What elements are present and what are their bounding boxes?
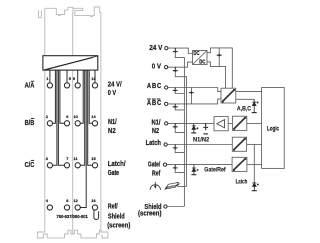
wire optocoupler N1/N2 to logic: [247, 122, 262, 124]
terminal 14: [92, 121, 97, 126]
svg-text:24 V: 24 V: [149, 45, 163, 52]
svg-text:5: 5: [69, 76, 72, 81]
terminal 0V: [164, 66, 167, 69]
wire ABCbar to optocoupler: [168, 99, 221, 104]
optocoupler U5 Latch: [232, 137, 246, 151]
svg-text:DC: DC: [199, 59, 206, 64]
svg-text:9: 9: [73, 76, 76, 81]
asterisk at Gate/Ref diode: [197, 169, 199, 171]
wire bundle left line to terminal 2: [53, 70, 56, 123]
wire bundle right line to terminal 10: [80, 70, 83, 123]
ground under D4: [252, 190, 257, 192]
capacitor lead ABC to rail: [175, 92, 184, 94]
svg-text:11: 11: [74, 156, 79, 161]
capacitor C5 differential ABC: [189, 91, 194, 94]
terminal 2: [47, 121, 52, 126]
svg-text:Ref: Ref: [152, 170, 161, 178]
housing middle divider: [72, 12, 74, 234]
svg-text:750-637/000-001: 750-637/000-001: [56, 214, 88, 219]
diode D3 suppressor A,B,C: [252, 99, 256, 112]
svg-text:Gate: Gate: [108, 169, 120, 177]
svg-text:ABC: ABC: [147, 99, 162, 107]
svg-text:12: 12: [74, 198, 79, 203]
wire stub terminal 5: [66, 70, 68, 83]
svg-text:1: 1: [46, 76, 49, 81]
terminal 10: [75, 121, 80, 126]
terminal ABC: [165, 86, 168, 89]
ground under D1: [191, 132, 196, 134]
terminal 24V: [165, 46, 168, 49]
wire bundle right line to terminal 12: [80, 70, 86, 207]
wire stub terminal 9: [77, 70, 79, 83]
terminal 12: [75, 205, 80, 210]
wire shield clamp to rail: [179, 185, 187, 187]
svg-text:4: 4: [46, 198, 49, 203]
svg-text:3: 3: [46, 156, 49, 161]
comparator U2 N1/N2: [214, 117, 228, 131]
svg-text:Gate/: Gate/: [148, 160, 161, 168]
wire bundle right line to terminal 15: [88, 70, 93, 165]
logic block U7: [262, 88, 285, 169]
capacitor lead Latch to rail: [175, 150, 184, 153]
rail 1 (0V bus): [175, 53, 184, 207]
capacitor lead ABCbar to rail: [175, 108, 184, 110]
clamp blade diagonal: [43, 56, 98, 70]
terminal N1/N2: [165, 122, 168, 125]
svg-text:N1/: N1/: [108, 119, 117, 127]
capacitor C8 at Gate/Ref: [173, 165, 178, 170]
terminal 13: [92, 83, 97, 88]
terminal 7: [64, 163, 69, 168]
svg-text:10: 10: [74, 114, 78, 119]
wire bundle left line to terminal 7: [58, 70, 64, 165]
svg-text:15: 15: [91, 156, 96, 161]
asterisk at N1/N2 diode: [197, 127, 199, 129]
svg-text:N2: N2: [108, 127, 116, 135]
capacitor ABC/ABCbar differential: [190, 88, 192, 104]
wire bundle left line to terminal 6: [60, 70, 65, 123]
svg-text:2: 2: [46, 114, 49, 119]
svg-text:Ref/: Ref/: [108, 203, 118, 211]
wire Shield to rail: [167, 206, 184, 208]
terminal 15: [92, 163, 97, 168]
terminal 8: [64, 205, 69, 210]
terminal 5: [64, 83, 69, 88]
wire Latch to optocoupler: [167, 144, 232, 146]
svg-text:DC: DC: [193, 51, 200, 56]
rail 2: [175, 72, 186, 186]
housing clip U top-left: [38, 10, 41, 18]
capacitor C7 at Latch: [173, 145, 178, 150]
ground under C10: [203, 133, 208, 135]
clamp blade lower edge: [47, 58, 93, 70]
capacitor C1 at 24V: [173, 48, 178, 53]
ground under D3: [252, 112, 257, 114]
wire stub terminal 13: [94, 70, 96, 83]
connector box: [43, 56, 98, 70]
wire DC/DC top output to optocoupler supply: [207, 48, 232, 88]
housing right edge: [100, 12, 102, 232]
diode D4 suppressor Latch: [252, 183, 256, 190]
svg-text:A/A: A/A: [25, 82, 35, 90]
svg-text:24 V/: 24 V/: [108, 81, 122, 89]
svg-text:Shield: Shield: [108, 213, 125, 221]
svg-text:13: 13: [91, 76, 96, 81]
capacitor lead N1 to rail: [175, 129, 184, 133]
wire optocoupler Latch to logic: [247, 143, 262, 145]
capacitor lead Gate to rail: [175, 170, 184, 173]
terminal 11: [75, 163, 80, 168]
wire bundle right line to terminal 11: [80, 70, 84, 165]
wire ABC to optocoupler: [168, 88, 221, 92]
svg-text:Latch: Latch: [146, 140, 161, 148]
svg-text:(screen): (screen): [107, 222, 130, 230]
DC/DC converter U1: [193, 51, 208, 65]
svg-text:8: 8: [66, 198, 69, 203]
svg-text:A,B,C: A,B,C: [237, 106, 251, 112]
svg-text:6: 6: [66, 114, 69, 119]
svg-text:ABC: ABC: [147, 83, 162, 91]
wire 0V to DC/DC: [168, 62, 193, 67]
terminal 6: [64, 121, 69, 126]
svg-text:Logic: Logic: [267, 126, 279, 133]
shield hook under terminal 16: [94, 210, 99, 220]
terminal 1: [47, 83, 52, 88]
capacitor C6 at N1/N2: [173, 123, 178, 128]
svg-text:16: 16: [91, 198, 96, 203]
wire optocoupler Gate/Ref to logic: [247, 164, 262, 166]
housing bottom profile module 1: [37, 230, 72, 238]
svg-text:C/C: C/C: [25, 161, 35, 169]
terminal Gate/Ref: [163, 163, 166, 166]
wire bundle right line to terminal 14: [89, 70, 92, 123]
asterisk at Latch diode: [257, 183, 259, 185]
svg-text:Gate/Ref: Gate/Ref: [204, 167, 225, 173]
housing top profile module 1: [45, 7, 73, 15]
svg-text:0 V: 0 V: [152, 63, 162, 71]
svg-text:N1/N2: N1/N2: [193, 137, 210, 143]
terminal 3: [47, 163, 52, 168]
terminal 4: [47, 205, 52, 210]
housing top profile module 2: [73, 7, 101, 17]
wire bundle left line to terminal 3: [53, 70, 57, 165]
functional earth symbol: [150, 182, 160, 190]
capacitor C2 at 0V: [173, 67, 178, 72]
optocoupler U3 ABC: [221, 88, 236, 103]
housing bottom profile module 2: [73, 230, 108, 238]
wire Gate/Ref to optocoupler: [167, 164, 232, 166]
wire optocoupler ABC to logic: [236, 91, 262, 93]
svg-text:(screen): (screen): [138, 210, 161, 218]
wire comparator to optocoupler N1/N2: [228, 122, 232, 124]
terminal Latch: [164, 143, 167, 146]
wire DC/DC bottom output to optocoupler supply: [207, 62, 226, 88]
capacitor C3 at ABC: [173, 88, 178, 92]
housing left edge: [44, 8, 46, 232]
wire latch branch to diode: [253, 144, 255, 182]
terminal ABCbar: [165, 102, 168, 105]
svg-text:N1/: N1/: [152, 119, 161, 127]
capacitor C4 at ABCbar: [173, 104, 178, 108]
svg-text:Latch: Latch: [236, 179, 248, 186]
optocoupler U4 N1/N2: [232, 116, 246, 130]
optocoupler U6 Gate/Ref: [232, 157, 247, 171]
terminal 16: [92, 205, 97, 210]
wire stub terminal 1: [49, 70, 51, 83]
wire N1/N2 to comparator: [168, 122, 214, 124]
svg-text:N2: N2: [152, 127, 159, 135]
capacitor C10 N1/N2 to ground: [203, 123, 208, 130]
svg-text:Latch/: Latch/: [108, 160, 126, 168]
terminal 9: [75, 83, 80, 88]
svg-text:0 V: 0 V: [108, 90, 117, 98]
wire 24V to DC/DC: [168, 48, 192, 53]
asterisk at A,B,C diode: [257, 101, 259, 103]
diode D1 suppressor N1/N2: [192, 123, 196, 132]
svg-text:B/B: B/B: [25, 119, 35, 127]
ground under D2: [191, 174, 196, 176]
svg-text:14: 14: [91, 114, 96, 119]
shield clamp symbol: [165, 182, 181, 189]
capacitor C9 across DC/DC output: [217, 54, 222, 57]
svg-text:7: 7: [66, 156, 68, 161]
capacitor across DC/DC output: [218, 48, 220, 67]
wire optocoupler ABC second output: [236, 98, 254, 100]
diode D2 suppressor Gate/Ref: [192, 165, 196, 175]
terminal Shield: [164, 205, 167, 208]
